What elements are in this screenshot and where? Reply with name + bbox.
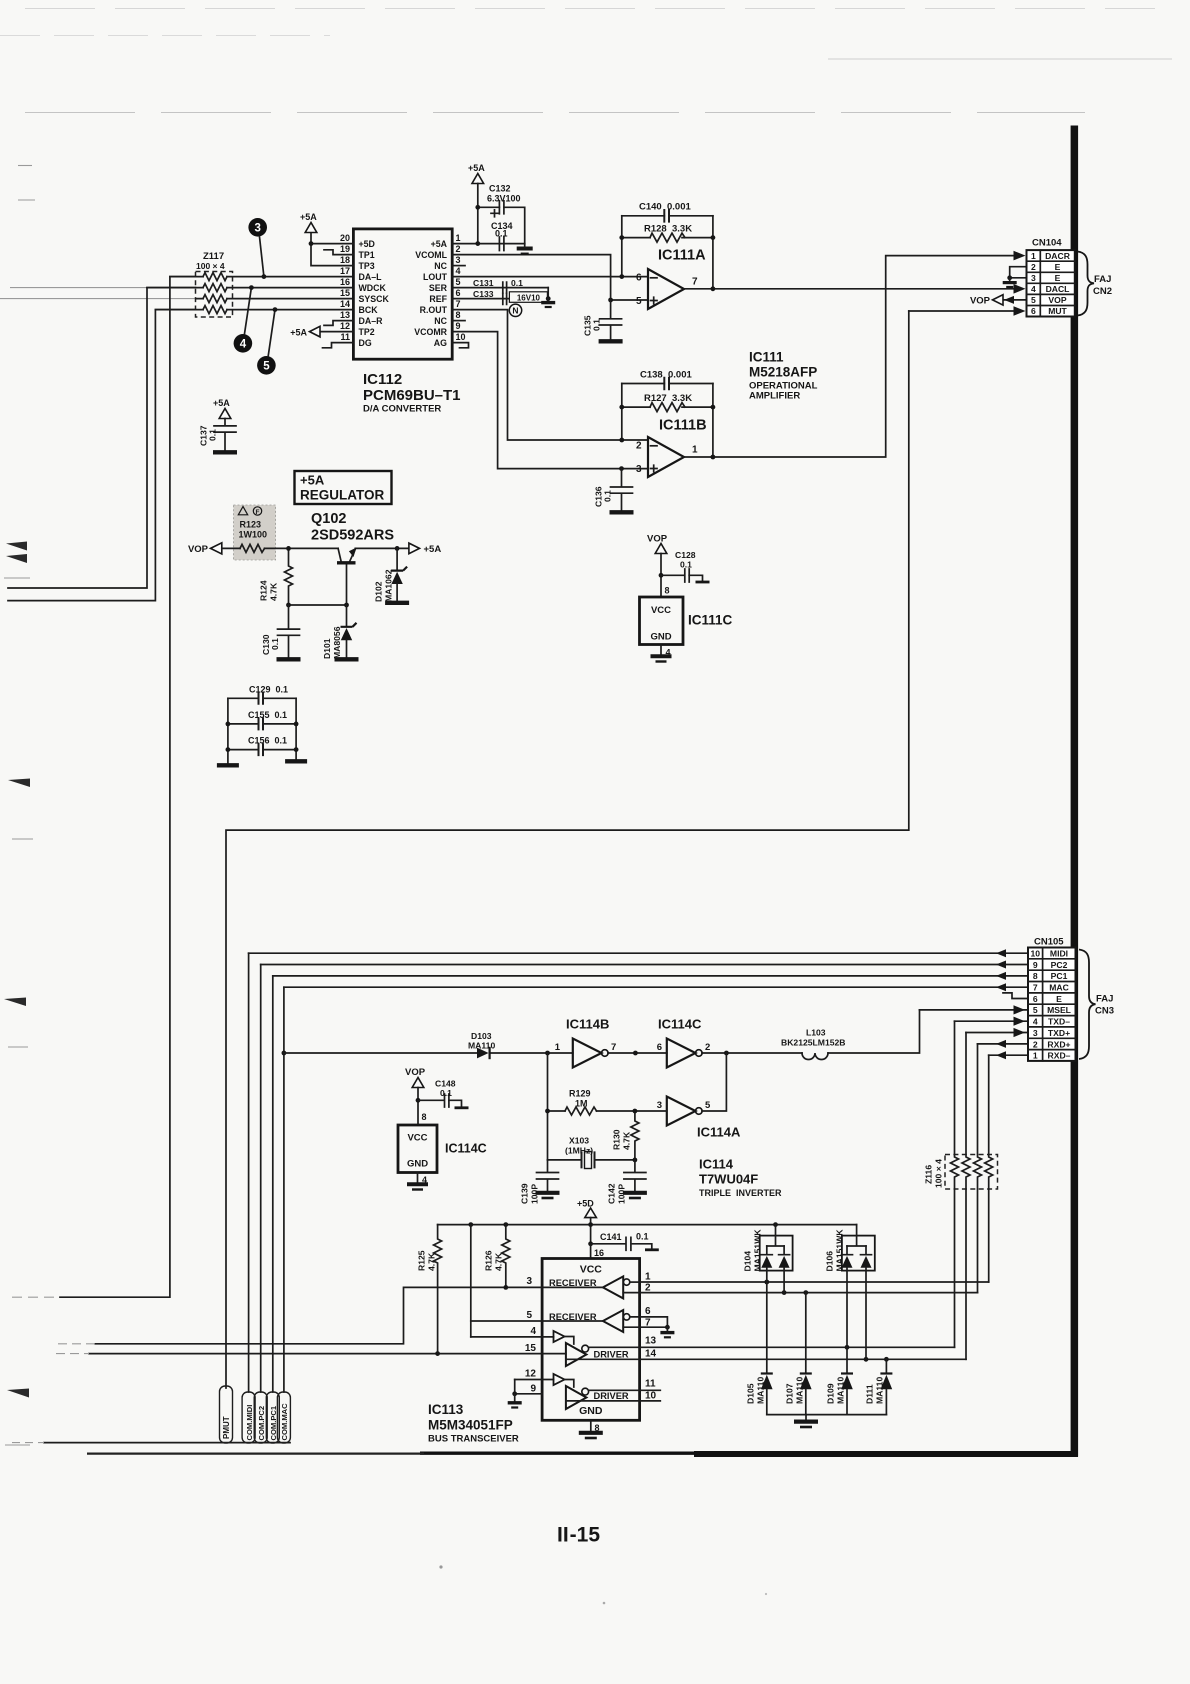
svg-text:IC111C: IC111C (688, 613, 733, 628)
svg-text:D105: D105 (746, 1383, 756, 1404)
svg-text:13: 13 (340, 310, 350, 320)
svg-text:3: 3 (456, 255, 461, 265)
svg-text:IC113: IC113 (428, 1402, 464, 1417)
svg-text:REF: REF (429, 294, 447, 304)
svg-text:IC111: IC111 (749, 350, 784, 365)
svg-text:D104: D104 (743, 1251, 753, 1272)
svg-text:7: 7 (645, 1317, 651, 1328)
svg-text:6: 6 (456, 288, 461, 298)
svg-text:NC: NC (434, 316, 447, 326)
svg-text:2SD592ARS: 2SD592ARS (311, 528, 394, 544)
svg-text:15: 15 (340, 288, 350, 298)
svg-text:C155 0.1: C155 0.1 (248, 710, 287, 720)
svg-text:0.1: 0.1 (592, 319, 602, 331)
svg-text:COM.PC2: COM.PC2 (257, 1406, 266, 1441)
svg-text:6: 6 (1033, 994, 1038, 1004)
svg-text:C128: C128 (675, 550, 696, 560)
svg-text:16: 16 (340, 277, 350, 287)
svg-text:MA1062: MA1062 (384, 569, 394, 602)
svg-text:MA110: MA110 (795, 1377, 805, 1404)
svg-text:4: 4 (240, 339, 247, 351)
svg-text:3: 3 (526, 1276, 532, 1287)
svg-text:3: 3 (254, 223, 260, 235)
svg-text:COM.MIDI: COM.MIDI (245, 1405, 254, 1441)
svg-text:Q102: Q102 (311, 511, 346, 527)
svg-text:BCK: BCK (359, 305, 379, 315)
svg-text:MA110: MA110 (875, 1377, 885, 1404)
svg-text:MA110: MA110 (836, 1377, 846, 1404)
svg-text:VOP: VOP (405, 1067, 426, 1078)
svg-text:7: 7 (1033, 983, 1038, 993)
svg-text:2: 2 (1031, 262, 1036, 272)
svg-text:+5D: +5D (359, 239, 375, 249)
svg-text:5: 5 (526, 1310, 532, 1321)
svg-text:14: 14 (645, 1348, 657, 1359)
svg-text:11: 11 (645, 1378, 656, 1389)
svg-text:II-15: II-15 (557, 1524, 600, 1547)
svg-text:VCC: VCC (651, 605, 671, 616)
svg-text:0.1: 0.1 (511, 278, 523, 288)
svg-text:C142: C142 (607, 1183, 617, 1204)
svg-text:1: 1 (456, 233, 461, 243)
svg-text:4.7K: 4.7K (427, 1252, 437, 1271)
svg-text:DA–R: DA–R (359, 316, 384, 326)
svg-text:+5A: +5A (468, 163, 485, 173)
svg-text:VCOML: VCOML (415, 250, 447, 260)
svg-text:+5A: +5A (290, 327, 307, 337)
svg-text:6: 6 (657, 1042, 662, 1053)
svg-text:1M: 1M (575, 1099, 588, 1109)
svg-text:7: 7 (611, 1042, 616, 1053)
svg-text:9: 9 (530, 1383, 536, 1394)
svg-text:10: 10 (1031, 949, 1041, 959)
svg-text:C129 0.1: C129 0.1 (249, 684, 288, 694)
svg-text:PC1: PC1 (1051, 971, 1068, 981)
svg-text:100P: 100P (617, 1184, 627, 1204)
svg-text:C156 0.1: C156 0.1 (248, 736, 287, 746)
svg-text:D/A CONVERTER: D/A CONVERTER (363, 404, 441, 415)
svg-text:D102: D102 (374, 581, 384, 602)
svg-text:TP2: TP2 (359, 327, 375, 337)
svg-text:0.1: 0.1 (680, 560, 692, 570)
svg-text:MIDI: MIDI (1050, 949, 1068, 959)
svg-text:IC111B: IC111B (659, 418, 707, 434)
svg-text:E: E (1055, 262, 1061, 272)
svg-text:DRIVER: DRIVER (594, 1391, 629, 1401)
svg-text:TXD+: TXD+ (1048, 1028, 1070, 1038)
svg-text:D103: D103 (471, 1031, 492, 1041)
svg-text:6: 6 (645, 1306, 651, 1317)
svg-text:C133: C133 (473, 289, 494, 299)
svg-text:3: 3 (1033, 1028, 1038, 1038)
svg-text:R125: R125 (417, 1250, 427, 1271)
svg-text:1: 1 (555, 1042, 561, 1053)
svg-text:MAC: MAC (1049, 983, 1069, 993)
svg-text:PCM69BU–T1: PCM69BU–T1 (363, 387, 461, 404)
svg-text:8: 8 (665, 586, 670, 596)
svg-text:L103: L103 (806, 1028, 826, 1038)
svg-text:AMPLIFIER: AMPLIFIER (749, 391, 800, 402)
svg-text:+5A: +5A (431, 239, 448, 249)
svg-text:MA8056: MA8056 (332, 626, 342, 659)
svg-text:R.OUT: R.OUT (420, 305, 448, 315)
svg-text:VOP: VOP (647, 534, 668, 545)
svg-text:MA110: MA110 (756, 1377, 766, 1404)
svg-text:5: 5 (1031, 295, 1036, 305)
svg-text:BK2125LM152B: BK2125LM152B (781, 1038, 845, 1048)
svg-text:D111: D111 (865, 1384, 875, 1404)
svg-text:7: 7 (456, 299, 461, 309)
svg-text:LOUT: LOUT (423, 272, 448, 282)
svg-text:0.1: 0.1 (603, 490, 613, 502)
svg-text:20: 20 (340, 233, 350, 243)
svg-text:SYSCK: SYSCK (359, 294, 390, 304)
svg-text:5: 5 (263, 361, 270, 373)
svg-text:6: 6 (636, 272, 642, 283)
svg-text:PMUT: PMUT (222, 1416, 231, 1439)
svg-text:C138 0.001: C138 0.001 (640, 370, 692, 381)
svg-text:RECEIVER: RECEIVER (549, 1278, 597, 1288)
svg-text:R126: R126 (484, 1250, 494, 1271)
svg-text:IC114C: IC114C (658, 1017, 702, 1032)
svg-text:R124: R124 (259, 580, 269, 601)
svg-text:+5D: +5D (577, 1199, 594, 1209)
svg-text:X103: X103 (569, 1136, 589, 1146)
svg-text:IC114: IC114 (699, 1157, 734, 1172)
svg-text:2: 2 (705, 1042, 710, 1053)
svg-text:RXD–: RXD– (1048, 1051, 1071, 1061)
svg-text:1: 1 (645, 1272, 651, 1283)
svg-text:100P: 100P (530, 1184, 540, 1204)
svg-text:12: 12 (525, 1368, 537, 1379)
svg-text:+5A: +5A (424, 544, 442, 555)
svg-text:D101: D101 (322, 638, 332, 659)
svg-text:0.1: 0.1 (440, 1088, 452, 1098)
svg-text:DACR: DACR (1045, 251, 1071, 261)
svg-text:17: 17 (340, 266, 350, 276)
svg-text:C131: C131 (473, 278, 494, 288)
svg-text:0.1: 0.1 (270, 638, 280, 650)
svg-text:10: 10 (456, 332, 466, 342)
svg-text:MA151WK: MA151WK (753, 1229, 763, 1272)
svg-text:2: 2 (636, 440, 642, 451)
svg-text:PC2: PC2 (1051, 960, 1068, 970)
svg-text:0.1: 0.1 (636, 1232, 649, 1242)
svg-text:15: 15 (525, 1343, 537, 1354)
svg-text:E: E (1056, 994, 1062, 1004)
svg-text:5: 5 (705, 1100, 711, 1111)
svg-text:WDCK: WDCK (359, 283, 387, 293)
svg-text:9: 9 (456, 321, 461, 331)
svg-text:M5218AFP: M5218AFP (749, 365, 817, 380)
svg-text:8: 8 (456, 310, 461, 320)
svg-text:0.1: 0.1 (208, 429, 218, 441)
svg-text:SER: SER (429, 283, 448, 293)
svg-text:D107: D107 (785, 1383, 795, 1404)
svg-text:MUT: MUT (1048, 306, 1067, 316)
svg-text:T7WU04F: T7WU04F (699, 1172, 758, 1187)
svg-text:CN2: CN2 (1093, 286, 1112, 297)
svg-text:6.3V100: 6.3V100 (487, 194, 521, 204)
svg-text:1W100: 1W100 (239, 530, 268, 540)
svg-text:TXD–: TXD– (1048, 1017, 1070, 1027)
svg-text:16: 16 (594, 1248, 604, 1258)
svg-text:4.7K: 4.7K (269, 582, 279, 601)
svg-text:IC112: IC112 (363, 371, 402, 388)
svg-text:F: F (256, 509, 260, 516)
svg-text:IC114A: IC114A (697, 1125, 741, 1140)
svg-text:3: 3 (657, 1100, 662, 1111)
svg-text:2: 2 (456, 244, 461, 254)
svg-text:COM.MAC: COM.MAC (280, 1403, 289, 1441)
svg-text:Z116: Z116 (924, 1165, 934, 1184)
svg-text:D109: D109 (826, 1383, 836, 1404)
svg-text:TP3: TP3 (359, 261, 375, 271)
svg-text:R129: R129 (569, 1089, 591, 1099)
svg-text:GND: GND (579, 1405, 603, 1417)
svg-text:M5M34051FP: M5M34051FP (428, 1418, 513, 1433)
svg-text:8: 8 (1033, 971, 1038, 981)
svg-text:CN3: CN3 (1095, 1006, 1114, 1017)
svg-text:MA110: MA110 (468, 1041, 495, 1051)
svg-text:100 × 4: 100 × 4 (196, 261, 225, 271)
svg-text:14: 14 (340, 299, 350, 309)
svg-text:VOP: VOP (188, 544, 209, 555)
svg-text:18: 18 (340, 255, 350, 265)
svg-text:6: 6 (1031, 306, 1036, 316)
svg-text:9: 9 (1033, 960, 1038, 970)
svg-text:C141: C141 (600, 1232, 622, 1242)
svg-text:MSEL: MSEL (1047, 1005, 1071, 1015)
svg-text:1: 1 (1033, 1051, 1038, 1061)
svg-text:+5A: +5A (300, 473, 325, 488)
svg-text:1: 1 (692, 445, 698, 456)
svg-text:FAJ: FAJ (1096, 994, 1113, 1005)
svg-text:3: 3 (1031, 273, 1036, 283)
svg-text:13: 13 (645, 1335, 657, 1346)
svg-text:VOP: VOP (970, 296, 991, 307)
svg-text:5: 5 (636, 296, 642, 307)
svg-text:(1MHz): (1MHz) (565, 1146, 593, 1156)
svg-text:8: 8 (422, 1112, 427, 1122)
svg-text:TRIPLE INVERTER: TRIPLE INVERTER (699, 1188, 782, 1198)
svg-text:4: 4 (456, 266, 461, 276)
svg-text:VCOMR: VCOMR (414, 327, 447, 337)
svg-text:4: 4 (530, 1326, 536, 1337)
svg-text:GND: GND (407, 1159, 428, 1170)
svg-text:COM.PC1: COM.PC1 (269, 1405, 278, 1440)
svg-text:VOP: VOP (1048, 295, 1066, 305)
svg-text:4: 4 (1031, 284, 1036, 294)
svg-text:11: 11 (340, 332, 350, 342)
svg-text:+5A: +5A (300, 212, 317, 222)
svg-text:D106: D106 (825, 1251, 835, 1272)
svg-text:16V10: 16V10 (517, 293, 541, 302)
svg-text:DA–L: DA–L (359, 272, 383, 282)
svg-text:IC114B: IC114B (566, 1017, 609, 1032)
svg-text:19: 19 (340, 244, 350, 254)
svg-text:CN104: CN104 (1032, 238, 1062, 249)
svg-text:VCC: VCC (580, 1264, 603, 1276)
svg-text:100 × 4: 100 × 4 (934, 1159, 944, 1188)
svg-text:REGULATOR: REGULATOR (300, 488, 385, 503)
svg-text:1: 1 (1031, 251, 1036, 261)
svg-text:10: 10 (645, 1390, 657, 1401)
svg-text:CN105: CN105 (1034, 937, 1064, 948)
svg-text:0.1: 0.1 (495, 229, 508, 239)
svg-text:R130: R130 (612, 1129, 622, 1150)
svg-text:+5A: +5A (213, 398, 230, 408)
svg-text:4: 4 (1033, 1017, 1038, 1027)
svg-text:N: N (512, 306, 518, 316)
svg-text:FAJ: FAJ (1094, 274, 1111, 285)
svg-text:AG: AG (434, 338, 447, 348)
svg-text:R128 3.3K: R128 3.3K (644, 224, 692, 235)
svg-text:GND: GND (650, 632, 671, 643)
svg-text:C140 0.001: C140 0.001 (639, 202, 691, 213)
svg-text:12: 12 (340, 321, 350, 331)
svg-text:TP1: TP1 (359, 250, 375, 260)
svg-text:5: 5 (1033, 1005, 1038, 1015)
svg-text:BUS TRANSCEIVER: BUS TRANSCEIVER (428, 1434, 519, 1445)
svg-text:7: 7 (692, 277, 698, 288)
svg-text:VCC: VCC (407, 1133, 427, 1144)
svg-text:IC111A: IC111A (658, 248, 706, 264)
svg-text:4.7K: 4.7K (622, 1131, 632, 1150)
svg-text:RXD+: RXD+ (1047, 1039, 1070, 1049)
svg-text:DRIVER: DRIVER (594, 1350, 629, 1360)
svg-text:MA151WK: MA151WK (835, 1229, 845, 1272)
svg-text:2: 2 (1033, 1039, 1038, 1049)
svg-text:5: 5 (456, 277, 461, 287)
svg-text:3: 3 (636, 464, 642, 475)
svg-text:C139: C139 (520, 1183, 530, 1204)
svg-text:NC: NC (434, 261, 447, 271)
svg-text:IC114C: IC114C (445, 1142, 487, 1156)
svg-text:C132: C132 (489, 184, 511, 194)
svg-text:4.7K: 4.7K (494, 1252, 504, 1271)
svg-text:DACL: DACL (1046, 284, 1070, 294)
svg-text:R123: R123 (240, 520, 262, 530)
svg-text:E: E (1055, 273, 1061, 283)
svg-text:R127 3.3K: R127 3.3K (644, 393, 692, 404)
svg-text:DG: DG (359, 338, 372, 348)
